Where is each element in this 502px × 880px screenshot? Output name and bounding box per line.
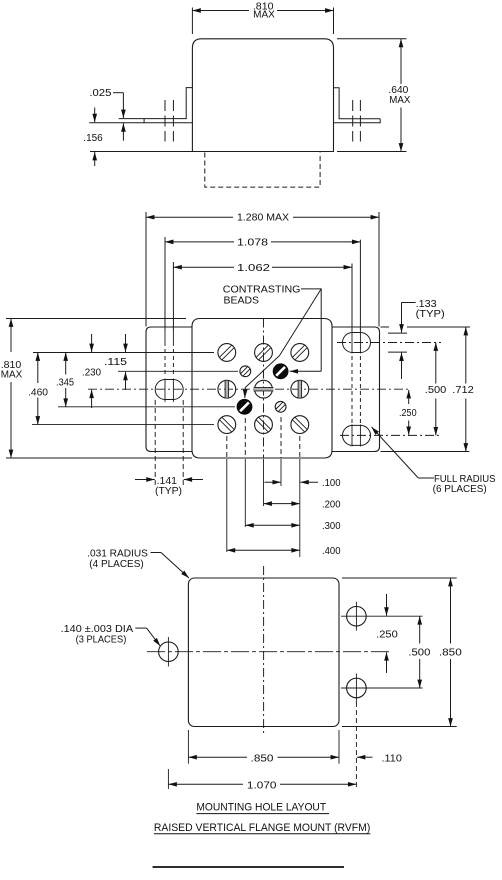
mounting hole lower right [347, 678, 367, 698]
plan view: left flange outline [146, 327, 192, 452]
right flange lower slotted hole [343, 425, 371, 445]
svg-text:1.070: 1.070 [247, 781, 277, 792]
dimension .460 [37, 353, 39, 384]
dimension .100 [265, 481, 281, 483]
svg-text:1.078: 1.078 [237, 238, 269, 249]
dimension .400 [227, 549, 300, 551]
dimension .133 TYP (slot height) [381, 326, 390, 328]
svg-text:.345: .345 [56, 377, 75, 388]
svg-text:RAISED VERTICAL FLANGE MOUNT (: RAISED VERTICAL FLANGE MOUNT (RVFM) [154, 822, 370, 834]
dimension .850 (rect width) [188, 756, 247, 758]
mounting hole upper right [347, 606, 367, 626]
dimension .712 [465, 327, 467, 384]
svg-text:MAX: MAX [253, 9, 275, 20]
extension line body bottom left [90, 151, 192, 153]
dimension .141 TYP (slot width) [154, 400, 156, 487]
svg-text:1.280 MAX: 1.280 MAX [237, 213, 289, 224]
dimension .200 [264, 503, 300, 505]
centerline right flange lower hole [340, 434, 441, 436]
svg-text:.460: .460 [28, 387, 49, 398]
svg-text:.025: .025 [89, 88, 112, 99]
centerline column 2 vertical [263, 319, 265, 459]
centerline row 2 horizontal [88, 388, 411, 390]
centerline/extension row 3 [32, 424, 214, 426]
dimension 1.070 [168, 783, 243, 785]
plan view: center body outline [192, 319, 332, 459]
side view: left flange bracket [144, 88, 192, 123]
leader to contrasting beads [301, 289, 321, 371]
svg-text:.850: .850 [439, 647, 463, 658]
dimension .850 (mounting height) [342, 577, 457, 579]
svg-text:1.062: 1.062 [237, 263, 270, 274]
svg-text:CONTRASTING: CONTRASTING [223, 284, 301, 295]
small terminal lower [275, 401, 286, 412]
dimension .500 (plan) [435, 343, 437, 384]
extension line bead row upper (.115) [118, 370, 238, 372]
extension line hole column right (dashed) [355, 702, 357, 789]
plan view: right flange outline [332, 327, 380, 452]
slot centerlines through right flange holes [359, 330, 361, 354]
svg-text:.141: .141 [157, 476, 177, 487]
mounting hole left [159, 642, 179, 662]
dimension .810 MAX (plan body height) [6, 318, 186, 320]
dimension .345 [65, 353, 67, 375]
dimension .250 (mounting) [386, 594, 388, 616]
side view: right flange bracket [334, 88, 381, 123]
dimension .810 MAX (top width) [191, 8, 193, 35]
contrasting bead lower left [237, 399, 252, 414]
mounting layout: base rectangle [188, 578, 339, 727]
svg-text:.115: .115 [104, 357, 128, 368]
svg-text:(TYP): (TYP) [416, 309, 445, 320]
dimension 1.078 (outer slot centers) [164, 237, 166, 330]
centerline/extension row 1 [33, 352, 214, 354]
extension lines mounting rect bottom [187, 730, 189, 764]
svg-text:.850: .850 [251, 754, 275, 765]
mounting layout: horizontal centerline [147, 651, 391, 653]
dimension .230 [91, 334, 93, 352]
side view: left terminal pins (hidden) [164, 100, 166, 142]
svg-text:(TYP): (TYP) [155, 486, 182, 497]
svg-text:(4 PLACES): (4 PLACES) [89, 559, 143, 570]
extension line flange top [119, 118, 144, 120]
svg-text:.500: .500 [408, 647, 431, 658]
dimension .300 [245, 524, 299, 526]
extension lines terminal columns below body [226, 436, 228, 458]
extension line flange bottom [89, 122, 144, 124]
svg-text:.712: .712 [452, 385, 474, 396]
extension line bead row lower (.345) [58, 406, 235, 408]
dimension .156 (flange height above seating) [94, 108, 96, 123]
centerline right flange upper hole [337, 342, 441, 344]
small terminal upper [240, 366, 251, 377]
side view: relay body outline [192, 39, 333, 152]
svg-text:BEADS: BEADS [224, 295, 260, 306]
terminal screw row 3 [218, 416, 236, 434]
terminal screw row 2 [218, 380, 236, 398]
side view: right terminal pins (hidden) [352, 100, 354, 142]
left flange slotted mounting hole [155, 380, 183, 400]
svg-text:.250: .250 [376, 630, 398, 641]
svg-text:MAX: MAX [1, 370, 23, 381]
svg-text:.500: .500 [425, 385, 447, 396]
svg-text:MOUNTING HOLE LAYOUT: MOUNTING HOLE LAYOUT [196, 802, 326, 814]
dimension .110 [357, 756, 373, 758]
svg-text:.156: .156 [83, 133, 103, 144]
dimension .250 (plan) [408, 390, 410, 404]
svg-text:.200: .200 [322, 500, 341, 511]
side view: hidden header outline below body (dashed) [205, 153, 320, 188]
extension line hole column left (dashed) [167, 769, 169, 789]
dimension 1.280 MAX (overall width) [145, 212, 147, 327]
svg-text:.100: .100 [322, 478, 341, 489]
svg-text:.110: .110 [382, 754, 403, 765]
right flange upper slotted hole [343, 333, 371, 353]
svg-text:.230: .230 [82, 367, 102, 378]
mounting layout: vertical centerline [263, 566, 265, 734]
svg-text:(3 PLACES): (3 PLACES) [76, 634, 127, 645]
dimension 1.062 (inner slot centers) [172, 262, 174, 330]
terminal screw row 1 [218, 344, 236, 362]
svg-text:MAX: MAX [389, 95, 411, 106]
extension line right flange bottom [381, 451, 470, 453]
dimension .500 (mounting) [419, 616, 421, 643]
svg-text:.250: .250 [399, 408, 417, 419]
svg-text:.300: .300 [322, 521, 341, 532]
table rule at page bottom [153, 866, 344, 868]
svg-text:(6 PLACES): (6 PLACES) [433, 484, 487, 495]
dimension .640 MAX (body height) [337, 38, 407, 40]
contrasting bead upper right [273, 364, 288, 379]
slot centerlines through left flange hole [164, 330, 166, 346]
svg-text:.400: .400 [322, 546, 341, 557]
dimension .115 [125, 334, 127, 352]
